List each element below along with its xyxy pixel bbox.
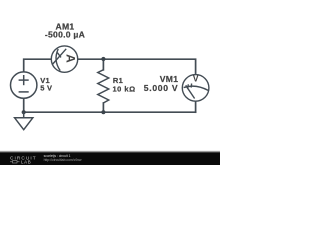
svg-text:LAB: LAB — [21, 160, 31, 165]
CircuitLab logo resistor glyph — [10, 161, 20, 163]
wire top from ammeter to voltmeter branch — [78, 59, 196, 74]
svg-text:5 V: 5 V — [40, 84, 52, 93]
node junction at ground / bottom-left — [22, 110, 26, 114]
node junction at resistor top — [101, 57, 105, 61]
wire right branch lower — [195, 101, 197, 112]
svg-text:-500.0 µA: -500.0 µA — [45, 29, 85, 39]
svg-text:V: V — [193, 74, 199, 84]
wire top-left corner — [24, 59, 52, 72]
svg-text:5.000 V: 5.000 V — [144, 83, 179, 93]
voltmeter VM1 — [182, 75, 209, 102]
wire resistor bottom stub — [102, 103, 104, 112]
ground — [15, 112, 33, 130]
svg-text:10 kΩ: 10 kΩ — [113, 84, 136, 93]
wire bottom — [24, 111, 196, 113]
footer watermark bar — [0, 151, 220, 154]
ammeter AM1 — [51, 46, 77, 72]
wire left branch lower — [23, 98, 25, 112]
svg-text:A: A — [63, 54, 77, 63]
wire resistor top stub — [102, 59, 104, 70]
svg-text:http://circuitlab.com/c9xw: http://circuitlab.com/c9xw — [44, 158, 82, 162]
voltage source V1 — [11, 72, 37, 98]
resistor R1 — [98, 70, 109, 103]
node junction at resistor bottom — [101, 110, 105, 114]
